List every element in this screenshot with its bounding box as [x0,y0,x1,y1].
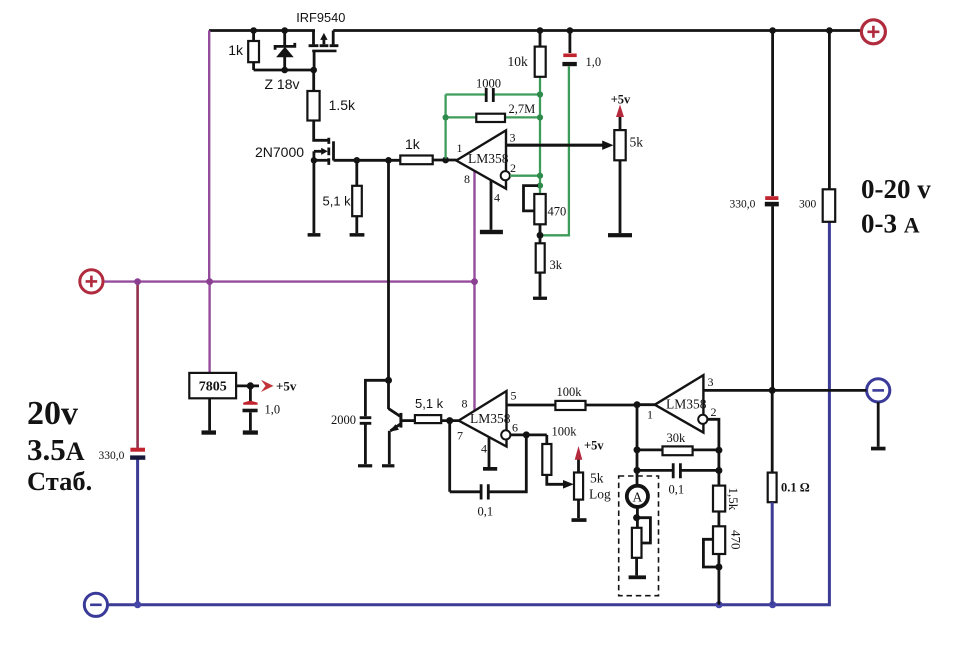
node: junction 30k left [634,446,641,453]
node: junction zener / gate wire [281,67,288,74]
wire: purple V+ supply line to pin 8 of both LM358 [473,171,475,410]
resistor R 300 lead [828,31,831,190]
svg-text:1,0: 1,0 [265,403,281,417]
svg-text:1: 1 [647,408,653,422]
dashed box around ammeter and shunt [619,476,659,596]
svg-text:Log: Log [589,487,611,502]
arrow: wiper into 5k Log pot [563,480,574,489]
wire: 100k to U3 pin 1 node [586,404,638,407]
wire: 5,1k to op-amp pin 7 apex [441,419,458,422]
svg-text:1,5k: 1,5k [726,488,741,511]
node: purple junction at 330,0 branch [134,278,141,285]
resistor R shunt body [632,528,642,558]
ground: 2N7000 source [308,233,321,237]
wire: long riser from gate node down to emitter follower [387,160,390,380]
wire: branch to 2000 capacitor [365,380,388,416]
svg-text:7805: 7805 [199,380,227,395]
node: junction 470 / bracket [715,564,722,571]
svg-text:LM358: LM358 [666,397,707,412]
svg-text:Z 18v: Z 18v [264,76,299,92]
node: pin 7 node [446,417,453,424]
resistor R 100k (horizontal) body [555,401,585,410]
svg-text:1k: 1k [405,136,421,152]
wire: purple lead from +20v rail down to 7805 input [208,282,210,374]
ground: below 5k pot [608,233,632,237]
regulator 7805 ground lead [208,398,211,430]
wire: purple +20v input horizontal rail [103,280,474,282]
arrow: red chevron +5v at 7805 [261,380,274,392]
svg-text:2: 2 [711,405,717,419]
wire: top rail left segment (input side) [209,29,315,32]
node: green junction 470 wiper [537,183,543,189]
wire: pin 2 wire down right column [707,419,719,485]
svg-text:0.1 Ω: 0.1 Ω [781,481,810,495]
svg-text:3.5A: 3.5A [27,432,85,467]
op-amp U3 LM358 triangle [655,375,704,432]
resistor R 1,5k body [713,486,725,512]
node: junction zener / rail [281,27,288,34]
op-amp U2 pin 6 bubble [501,430,510,439]
svg-text:100k: 100k [557,385,583,399]
op-amp U1 pin 4 lead [490,180,493,230]
node: blue junction shunt branch at bottom rail [769,601,776,608]
svg-text:+5v: +5v [276,379,297,394]
svg-text:LM358: LM358 [468,151,509,166]
svg-text:5k: 5k [630,135,644,150]
capacitor C 330,0 black plate [765,202,779,207]
ammeter A [627,486,648,507]
svg-text:1000: 1000 [476,77,501,91]
resistor R 470 (top) body [534,194,545,224]
node: junction long riser / 2000 cap / collector [385,377,392,384]
arrow: red +5v arrowhead above 5k Log [575,446,583,460]
wire: blue lead 330,0 capacitor to bottom rail [136,460,139,605]
svg-text:A: A [633,489,643,504]
svg-text:30k: 30k [667,431,687,445]
resistor R 3k bottom lead [539,273,542,297]
ground: op-amp U1 pin 4 [480,230,503,234]
svg-text:6: 6 [512,421,518,435]
wire: 1k to op-amp input node [433,159,457,162]
node: junction gate wire / 1.5k [310,67,317,74]
wire: base lead to 5,1k [401,419,415,422]
capacitor C 330,0 left black plate [130,455,145,459]
resistor R 0.1 Ohm lower lead (blue) [771,502,774,605]
resistor R 2,7M body [476,114,505,122]
wire: U1 pin 3 output redrawn over green [506,144,603,147]
resistor R 5,1k body [352,186,362,216]
terminal: - output (right) [867,379,890,402]
transistor Q 2N7000 (N-MOSFET) [314,138,334,233]
capacitor C 0,1 (U3) plates [673,463,680,478]
resistor R shunt trimmer bracket [637,518,651,543]
op-amp U3 LM358 (bottom right) input wire [637,403,655,406]
capacitor C 1,0 (7805) lead [249,386,252,401]
resistor R 1k body [248,41,259,62]
svg-text:470: 470 [729,530,744,550]
op-amp U2 pin 4 lead [488,437,491,467]
terminal: + input (left) [80,270,103,293]
capacitor C 1000 green leads [446,93,485,95]
svg-text:1: 1 [457,141,463,155]
capacitor C 2000 lower lead [364,425,367,465]
zener diode Z 18v leads [283,31,286,71]
svg-text:0,1: 0,1 [478,505,494,519]
op-amp U2 LM358 (bottom left, current loop) triangle [459,391,507,447]
svg-text:10k: 10k [508,54,529,69]
wire: 1,5k to 470 [718,512,721,527]
resistor R 470 (bottom) body [713,526,725,554]
zener diode Z 18v cathode bar with bends [275,43,295,50]
wire: ammeter to shunt [636,507,639,528]
svg-text:0-20 v: 0-20 v [861,174,931,204]
ground: below 3k [533,297,547,300]
potentiometer R 5k Log body [574,473,583,500]
wire: green column below 10k [539,77,541,194]
capacitor C 0,1 right lead up to pin 6 node [490,435,527,492]
arrow: wiper into 5k potentiometer [602,141,613,150]
op-amp U2 pin 5 output wire to 100k [507,404,556,407]
svg-text:2,7M: 2,7M [509,102,536,116]
transistor Q NPN emitter follower [389,380,401,464]
svg-text:470: 470 [548,205,567,219]
ground: 7805 [202,430,217,434]
svg-text:Стаб.: Стаб. [27,466,92,496]
svg-text:2: 2 [510,161,516,175]
svg-text:20v: 20v [27,395,78,432]
resistor R 100k (vertical) body [542,444,551,475]
svg-text:1,0: 1,0 [586,55,602,69]
node: junction gate / long riser [385,157,392,164]
node: junction 30k right [715,447,722,454]
svg-text:1k: 1k [228,42,244,58]
wire: maroon lead from +20v node down to 330,0 capacitor [136,282,139,448]
wire: 2N7000 gate line to 1k [334,159,401,162]
resistor R 1.5k leads [314,70,329,140]
wire: 100k down and right to 5k Log wiper [547,475,563,484]
terminal: + output (top right) [861,20,885,44]
svg-text:330,0: 330,0 [730,199,756,211]
op-amp U1 LM358 (top, voltage loop) triangle [456,130,506,188]
capacitor C 1,0 black plate [562,62,576,66]
op-amp U3 pin 3 output wire to - terminal [703,389,866,392]
wire: blue bottom ground rail with right riser to 300 resistor [107,222,829,605]
capacitor C 330,0 red plate [765,196,778,200]
node: rail junction 10k [537,27,544,34]
svg-text:2N7000: 2N7000 [255,144,304,160]
node: junction 470/3k/green [537,232,544,239]
node: rail junction 1,0 cap [567,27,574,34]
terminal: - input (left bottom) [84,593,107,616]
wire: gate node horizontal at y=70 [254,69,314,72]
node: green junction 1000 cap [537,91,543,97]
resistor R 1k (gate pull-up, top left) leads [252,31,255,71]
op-amp U1 pin 2 bubble [501,171,510,180]
svg-text:+5v: +5v [584,439,604,453]
resistor R 470 bracket wiper [703,539,719,567]
resistor R 30k body [663,446,693,455]
zener diode Z 18v triangle [276,47,294,57]
node: junction ammeter / wiper bracket [633,514,640,521]
node: green junction 2.7M left [443,114,449,120]
svg-text:300: 300 [799,199,817,211]
capacitor C 330,0 lower lead to pin3 node [771,206,774,390]
wire: 470 bottom to 3k top [539,224,542,243]
svg-text:4: 4 [494,191,500,205]
ground: emitter [382,464,394,467]
capacitor C 1,0 (7805) red plate [243,401,257,405]
op-amp U1 output pin 3 wire to 5k wiper arrow [506,144,603,147]
node: blue junction left cap to bottom rail [134,601,141,608]
svg-text:3: 3 [510,131,516,145]
capacitor C 1000 plates [486,88,493,102]
svg-text:100k: 100k [552,425,578,439]
wire: pin 7 feedback drop [448,421,451,492]
wire: green pin 2 feedback to 470 column [510,175,540,177]
resistor R 100k (vertical) upper lead [545,435,548,444]
resistor R 1.5k body [307,91,319,121]
capacitor C 330,0 left red plate [130,448,145,452]
svg-text:LM358: LM358 [470,411,511,426]
svg-text:0-3 A: 0-3 A [861,209,920,239]
capacitor C 1,0 (7805) black plate [243,409,258,413]
capacitor C 1,0 (top) lead [569,31,572,54]
wire: - output terminal to ground [877,402,880,447]
capacitor C 1,0 (7805) lower lead [249,412,252,430]
wire: green from 1,0 cap down and left to 3k node [542,66,569,235]
resistor R shunt lower lead [635,558,638,576]
wire: 7805 output to +5v node [236,384,259,387]
potentiometer R 5k leads [619,117,622,234]
node: pin 1 node U3 [634,401,641,408]
svg-text:5,1 k: 5,1 k [323,194,352,209]
resistor R 1k (op-amp drive) body [400,156,432,165]
wire: U3 pin1 node column down to ammeter [636,405,639,486]
node: junction pin6 / 0,1 [523,431,530,438]
node: green junction pin 2 [537,173,543,179]
ground: below - output terminal [871,447,886,451]
capacitor C 0,1 (U2 feedback) left lead [450,490,480,493]
transistor Q IRF9540 (P-MOSFET pass transistor) [309,31,339,71]
svg-text:7: 7 [457,429,463,443]
svg-text:8: 8 [464,172,470,186]
svg-text:8: 8 [462,397,468,411]
svg-text:5: 5 [511,389,517,403]
node: blue junction 470 branch at bottom rail [715,601,722,608]
node: rail junction 300 [826,27,833,34]
node: junction pin3 / 330,0 / 0.1 ohm [769,387,776,394]
svg-text:5k: 5k [590,471,604,486]
node: junction 1k / rail [250,27,257,34]
potentiometer R 5k Log bottom lead [577,500,580,519]
svg-text:2000: 2000 [331,413,356,427]
resistor R 5,1 k (base) body [415,415,441,423]
wire: green left vertical (1000/2.7M to input node) [444,95,446,159]
ground: 5k Log [572,518,587,522]
node: purple junction at 7805 branch [206,278,213,285]
ground: 2000 cap [358,464,372,467]
potentiometer R 5k Log top lead [577,460,580,473]
svg-text:+5v: +5v [611,93,631,107]
node: junction 0,1 right [715,467,722,474]
potentiometer R 5k body [614,130,625,160]
ground: below 5.1k [350,233,365,237]
arrow: red +5v arrowhead above 5k [616,105,624,118]
node: rail junction 330,0 [769,27,776,34]
node: input node dot (1k / green / apex) [442,157,449,164]
wire: 30k feedback line [637,448,719,451]
capacitor C 330,0 (right output cap) upper lead [771,31,774,197]
resistor R 10k lead from rail [539,31,542,47]
resistor R 470 (top) bracket wiper [524,186,539,211]
resistor R 10k body [535,47,546,77]
resistor R 0.1 Ohm body [768,473,777,503]
op-amp U3 pin 2 bubble [698,415,707,424]
node: junction gate / 5.1k [354,157,361,164]
svg-text:IRF9540: IRF9540 [296,10,345,25]
node: junction 0,1 left [634,467,641,474]
svg-text:1.5k: 1.5k [329,97,356,113]
ground: 1,0 cap at 7805 [243,430,258,434]
resistor R 300 body [823,189,836,222]
wire: 470 bottom to blue rail [718,554,721,605]
svg-text:330,0: 330,0 [99,450,125,462]
resistor R 0.1 Ohm upper lead [771,390,774,472]
wire: top rail right segment (output side to + terminal) [333,29,861,32]
node: purple junction at pin-8 riser [471,278,478,285]
capacitor C 0,1 plates [481,484,488,499]
node: +5v node at 7805 [247,382,254,389]
resistor R 5,1k leads [355,160,358,233]
capacitor C 2000 plates [360,418,372,424]
wire: purple riser from top rail down to +20v input node [208,31,210,283]
node: junction source corner [311,157,317,163]
ground: shunt [629,575,646,579]
node: green junction 2.7M right [537,114,543,120]
svg-text:0,1: 0,1 [669,483,685,497]
svg-text:4: 4 [481,442,487,456]
svg-text:3: 3 [708,375,714,389]
svg-text:3k: 3k [550,258,563,272]
svg-text:5,1 k: 5,1 k [415,396,444,411]
resistor R 2,7M green leads [446,116,477,118]
resistor R 3k body [536,243,545,272]
wire: pin 6 to 100k vertical [510,433,546,436]
wire: 0,1 cap line (U3 feedback) [637,469,719,472]
ground: op-amp U2 pin 4 [483,467,497,471]
capacitor C 1,0 red plate [563,54,576,58]
regulator U 7805 box [189,373,236,398]
